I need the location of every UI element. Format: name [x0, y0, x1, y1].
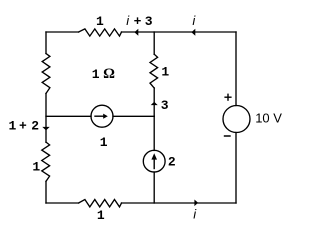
- svg-text:1: 1: [9, 119, 17, 134]
- wire: middle branch bottom segment: [153, 172, 155, 203]
- svg-text:1: 1: [161, 65, 169, 80]
- svg-text:10 V: 10 V: [255, 111, 282, 126]
- current source I2 2A (circle): [143, 150, 165, 172]
- current arrow i on bottom wire (right-pointing): [194, 200, 198, 207]
- voltage source V1 10V (circle): [223, 106, 250, 133]
- resistor R4 bottom (1): [79, 200, 122, 207]
- wire: top edge left segment: [46, 31, 79, 33]
- wire: middle branch top segment: [153, 32, 155, 54]
- svg-text:1: 1: [32, 160, 40, 175]
- wire: top edge right segment: [122, 31, 237, 33]
- svg-text:Ω: Ω: [103, 66, 115, 82]
- resistor R1 top (1): [79, 29, 122, 36]
- svg-text:1: 1: [96, 14, 104, 29]
- svg-text:3: 3: [161, 98, 169, 113]
- label - (voltage source polarity): [224, 135, 231, 137]
- svg-text:2: 2: [31, 119, 39, 134]
- current arrow 3 on middle branch (up-pointing): [151, 102, 158, 105]
- wire: middle horizontal right segment: [113, 115, 154, 117]
- wire: bottom edge left segment: [46, 202, 79, 204]
- wire: left edge upper segment: [45, 32, 47, 54]
- current arrow i on top wire (left-pointing): [191, 29, 195, 36]
- wire: left edge lower segment: [45, 181, 47, 203]
- wire: right edge lower segment: [235, 133, 237, 204]
- wire: middle horizontal left segment: [46, 115, 91, 117]
- current source I2 arrow (up-pointing, inside circle): [154, 159, 155, 169]
- svg-text:1: 1: [97, 208, 105, 223]
- svg-text:1: 1: [92, 67, 100, 82]
- svg-text:i: i: [126, 13, 130, 28]
- wire: middle branch segment mid node to source: [153, 116, 155, 150]
- wire: left edge middle segment: [45, 94, 47, 143]
- wire: right edge upper segment: [235, 32, 237, 106]
- current arrow 1+2 on left wire (down-pointing): [42, 127, 49, 130]
- svg-text:2: 2: [168, 155, 176, 170]
- current source I1 1A (circle): [91, 105, 113, 127]
- current source I1 arrow (right-pointing, inside circle): [94, 116, 103, 117]
- resistor R5 middle (1): [150, 54, 158, 88]
- wire: middle branch segment resistor to mid node: [153, 88, 155, 116]
- svg-text:3: 3: [145, 14, 153, 29]
- wire: bottom edge right segment: [122, 202, 237, 204]
- current arrow i+3 on top wire (left-pointing): [134, 29, 138, 36]
- svg-text:i: i: [193, 207, 197, 222]
- svg-text:i: i: [192, 13, 196, 28]
- svg-text:1: 1: [100, 135, 108, 150]
- resistor R2 left upper (1 ohm): [42, 54, 50, 94]
- label + (voltage source polarity): [224, 94, 231, 101]
- svg-text:+: +: [134, 14, 142, 29]
- svg-text:+: +: [19, 119, 27, 134]
- resistor R3 left lower (1): [42, 142, 50, 181]
